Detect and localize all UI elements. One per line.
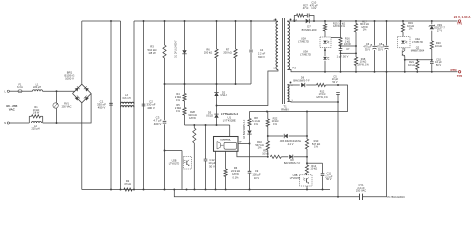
label T1 pin numbers	[273, 20, 298, 102]
wire bias top pin	[288, 84, 300, 86]
resistor R7	[234, 49, 237, 58]
svg-text:RM8/I: RM8/I	[281, 107, 289, 111]
label R6 sense value	[231, 166, 240, 180]
zener VR1	[429, 25, 435, 29]
svg-text:220 µH: 220 µH	[33, 86, 41, 89]
svg-text:47 Ω: 47 Ω	[303, 6, 309, 10]
wire R28 to rail	[193, 143, 195, 190]
node snubber junctions	[293, 20, 315, 22]
capacitor C9	[248, 171, 252, 173]
svg-text:PI-7516-022016: PI-7516-022016	[388, 196, 406, 199]
resistor R22	[266, 119, 269, 126]
wire bias winding return	[288, 101, 339, 104]
wire R4 to R5	[184, 101, 186, 108]
label D4 value	[243, 119, 246, 139]
svg-text:MMBT3904: MMBT3904	[411, 49, 425, 53]
inductor L3 winding 2	[121, 106, 134, 108]
wire N input	[9, 122, 29, 124]
wire Q2 sense link	[405, 59, 432, 61]
wire D4 to BP	[249, 135, 251, 144]
label R10 value	[255, 140, 263, 150]
svg-text:LYT4328E: LYT4328E	[223, 119, 236, 123]
wire R11 to D8	[281, 156, 288, 158]
label VR1 value	[434, 23, 445, 33]
node divider link ends	[340, 45, 357, 54]
capacitor C7	[339, 49, 343, 51]
wire R8 column top	[249, 112, 251, 119]
resistor R27	[297, 14, 304, 17]
transformer T1 secondary winding	[288, 22, 290, 70]
wire U2A link to R16	[331, 37, 341, 39]
label Q2 value	[411, 46, 425, 53]
wire U1 pin S2	[225, 151, 227, 169]
label U3B refdes	[290, 174, 301, 180]
wire F1 to L1	[22, 90, 33, 92]
label D5 value	[206, 111, 213, 118]
svg-text:1/8 W: 1/8 W	[33, 112, 40, 115]
wire R21 to RTN	[416, 70, 418, 72]
label RTN	[451, 68, 457, 72]
wire BP to C9	[249, 144, 251, 172]
label R11 value	[262, 150, 269, 156]
label C3 value	[153, 116, 161, 126]
svg-text:LTV817D: LTV817D	[300, 53, 311, 57]
label C11 value	[325, 173, 333, 182]
bridge rectifier BR1	[73, 84, 92, 103]
svg-text:1/8 W: 1/8 W	[189, 116, 196, 120]
label input voltage	[6, 104, 17, 112]
wire RV1 bottom lead	[56, 108, 58, 123]
wire R28 top lead	[193, 125, 195, 128]
label D2 value	[220, 90, 227, 97]
label L3 value	[122, 94, 130, 100]
node sense link junctions	[404, 59, 433, 61]
fuse F1	[18, 90, 22, 93]
wire L1 to bridge	[43, 90, 75, 92]
wire bridge plus riser	[81, 21, 83, 84]
svg-text:250 VAC: 250 VAC	[62, 105, 72, 108]
wire bias bus	[250, 85, 348, 112]
svg-text:10 kΩ: 10 kΩ	[310, 167, 317, 171]
label R21 value	[408, 60, 415, 67]
svg-text:0.1%: 0.1%	[233, 175, 240, 179]
capacitor C3	[163, 121, 167, 123]
wire R7 line	[235, 21, 237, 49]
label BR1 value	[65, 70, 75, 80]
label C8 value	[376, 42, 385, 52]
resistor R20	[430, 41, 433, 49]
wire U1 drain pin	[229, 125, 231, 137]
label R7 value	[223, 48, 231, 55]
svg-text:2.2 nF: 2.2 nF	[258, 51, 266, 55]
wire R19 line	[402, 21, 404, 24]
svg-text:LTV817D: LTV817D	[169, 162, 180, 165]
wire C12 line upper	[205, 125, 207, 159]
resistor R8	[248, 119, 251, 126]
wire R1 right stub	[42, 116, 44, 123]
svg-text:220 µH: 220 µH	[31, 128, 39, 131]
wire U4A to Q2	[402, 48, 404, 50]
node U2B collector tap	[164, 150, 166, 152]
label R15 value	[333, 21, 346, 28]
diode D4	[247, 131, 251, 135]
wire C11 top link	[307, 162, 323, 164]
label R17 value	[360, 20, 369, 31]
node N-RV1 junction	[56, 122, 58, 124]
wire chain to R14	[306, 157, 308, 165]
label R28 value	[188, 110, 196, 120]
label RV1 value	[62, 103, 72, 109]
label R5 value	[175, 103, 181, 113]
svg-text:BYM26-200: BYM26-200	[302, 28, 317, 32]
transformer T1 primary winding	[276, 22, 278, 70]
svg-text:400 V: 400 V	[154, 122, 162, 126]
capacitor C4	[249, 50, 253, 52]
wire U3A to RTN	[324, 61, 326, 72]
wire drain jog line	[185, 124, 230, 126]
resistor R3	[163, 45, 166, 58]
wire C12 line lower	[205, 161, 207, 190]
wire C8 line	[386, 21, 388, 46]
resistor R17	[354, 24, 357, 33]
wire C10b to RTN	[431, 64, 433, 72]
wire D8 to R13 column	[294, 156, 307, 158]
wire D1 to R4	[184, 57, 186, 94]
resistor R14	[305, 165, 308, 174]
label D7 value	[302, 25, 317, 32]
label L1 value	[33, 83, 41, 89]
wire clamp bus full	[165, 83, 252, 85]
wire U1 BP pin	[238, 143, 250, 145]
wire C9 to rail	[249, 174, 251, 190]
label C1 value	[97, 99, 106, 109]
svg-text:C4: C4	[260, 48, 264, 52]
inductor L3 winding 1	[121, 102, 134, 104]
node bottom rail junctions	[110, 189, 323, 191]
wire bottom rail	[82, 189, 330, 191]
wire R20 to C10b	[431, 49, 433, 61]
label TP1	[457, 22, 463, 26]
wire snubber right	[312, 16, 315, 22]
svg-text:1000 V: 1000 V	[65, 76, 74, 80]
label D1 value	[175, 40, 178, 58]
resistor R10	[266, 141, 269, 150]
opto U2B transistor	[184, 157, 192, 170]
label C10 output value	[435, 57, 442, 67]
capacitor C10 snubber	[304, 14, 312, 18]
svg-text:10 V: 10 V	[254, 176, 260, 180]
svg-text:50 V: 50 V	[332, 81, 337, 84]
wire R16 to C7	[340, 46, 342, 49]
inductor L3 line A	[120, 21, 122, 190]
inductor L1	[33, 90, 43, 91]
transistor Q2	[402, 48, 405, 56]
capacitor C6	[371, 44, 377, 49]
transformer T1 core	[282, 18, 284, 104]
svg-text:200 kΩ: 200 kΩ	[223, 51, 231, 55]
wire C11 to rail	[322, 176, 324, 189]
wire R3C3 line top	[164, 21, 166, 45]
label R6 clamp value	[204, 48, 212, 55]
resistor R1	[29, 115, 42, 118]
wire C6 line	[374, 21, 376, 46]
label TP2	[457, 74, 463, 78]
svg-text:BAV19WS-7-F: BAV19WS-7-F	[293, 80, 310, 83]
svg-text:47 kΩ: 47 kΩ	[124, 182, 131, 186]
wire VR1 line	[431, 21, 433, 24]
wire D1 line top	[184, 21, 186, 47]
capacitor C2	[142, 104, 146, 106]
terminal TP1	[458, 20, 460, 22]
resistor R5	[183, 108, 186, 115]
node sub-line C5 junction	[337, 196, 339, 198]
node bias bus junctions	[266, 111, 308, 113]
svg-text:CONTROL: CONTROL	[220, 140, 231, 142]
svg-text:35 V: 35 V	[365, 48, 371, 52]
capacitor C10 output	[430, 62, 434, 64]
svg-text:US1D: US1D	[206, 113, 213, 117]
wire R21 top	[416, 60, 418, 61]
capacitor C5	[336, 93, 340, 95]
terminal TP2	[458, 71, 460, 73]
diode D7	[294, 19, 314, 23]
capacitor C8	[383, 44, 389, 49]
label R18 value	[357, 58, 369, 67]
svg-text:LTV817D: LTV817D	[290, 177, 301, 180]
label D8 value	[284, 159, 301, 165]
opto U4A LED	[398, 37, 411, 48]
inductor L2	[32, 122, 42, 123]
wire U3B emitter	[306, 186, 308, 190]
capacitor C11	[321, 174, 325, 176]
wire R14 to U3B	[306, 174, 308, 176]
terminal L	[5, 90, 10, 93]
wire C1 line	[110, 21, 112, 190]
wire JR3 line left	[268, 135, 284, 137]
svg-text:BAV19WS-7-F: BAV19WS-7-F	[284, 162, 301, 165]
label C2 value	[147, 100, 156, 110]
terminal N	[4, 122, 9, 125]
op-amp U1 LYTSwitch-4 IC body	[214, 137, 243, 152]
svg-text:630 V: 630 V	[258, 55, 265, 59]
label R27 value	[303, 3, 309, 10]
diode D6	[301, 83, 305, 87]
wire C8 to RTN	[386, 50, 388, 72]
label D6 refdes	[301, 77, 305, 80]
wire drain bus	[217, 70, 279, 106]
wire JR3 line right	[289, 135, 307, 137]
label T1 refdes	[281, 104, 289, 111]
svg-text:1/8 W: 1/8 W	[344, 42, 351, 46]
svg-text:50 V: 50 V	[436, 63, 442, 67]
diode D5	[214, 106, 218, 126]
wire R13 column top	[306, 112, 308, 140]
label R1 value	[33, 106, 40, 114]
wire VR1 to R20	[431, 31, 433, 41]
wire R3 to C3	[164, 58, 166, 120]
node BP junction	[249, 143, 251, 145]
wire C4 line	[250, 21, 252, 49]
node chain junction	[267, 156, 308, 158]
inductor L3 line B	[133, 21, 135, 190]
svg-text:50 V: 50 V	[209, 165, 215, 169]
wire U1 FB pin	[237, 151, 268, 157]
label U2A refdes	[298, 37, 309, 44]
svg-text:1/8 W, 1%: 1/8 W, 1%	[316, 96, 328, 99]
svg-text:1 kV: 1 kV	[311, 6, 316, 10]
node R28 tap	[193, 124, 195, 126]
node C5 top tap	[337, 84, 339, 86]
node C12 tap	[205, 124, 218, 126]
wire C5 to ground	[337, 94, 339, 196]
svg-text:1%: 1%	[254, 122, 258, 126]
wire R17 line	[355, 21, 357, 24]
resistor R6 sense	[224, 169, 227, 176]
node RTN junctions	[324, 71, 433, 73]
svg-text:200 kΩ: 200 kΩ	[204, 51, 212, 55]
svg-text:1/8 W, 1%: 1/8 W, 1%	[333, 24, 346, 28]
wire ground sub-line right	[363, 72, 387, 197]
svg-text:1 µF, 50 V: 1 µF, 50 V	[337, 55, 349, 59]
label R22 value	[272, 116, 279, 126]
diode D1	[182, 47, 186, 57]
wire R15 to U2A	[324, 31, 326, 37]
wire C2 line	[143, 21, 145, 190]
label R16 value	[344, 37, 351, 47]
resistor R12	[317, 83, 326, 86]
label C6 value	[363, 42, 372, 52]
wire L input	[9, 90, 18, 92]
label C7 value	[337, 55, 349, 59]
svg-text:N: N	[4, 122, 6, 125]
wire R10 to chain	[267, 150, 269, 157]
label D6 value	[293, 80, 310, 83]
capacitor CY1	[360, 194, 363, 200]
svg-text:C9: C9	[255, 169, 259, 173]
resistor R15	[323, 24, 326, 31]
wire U2B emitter	[181, 151, 183, 190]
svg-text:TP1: TP1	[457, 22, 463, 26]
node JR3 right junction	[306, 135, 308, 137]
wire U1 pin S1	[215, 151, 217, 189]
label R3 value	[148, 45, 157, 55]
svg-text:35 V: 35 V	[378, 48, 384, 52]
wire C3 to rail	[164, 124, 166, 189]
wire D6 to R12	[306, 84, 316, 86]
resistor R2	[124, 188, 132, 191]
resistor R18	[354, 57, 357, 66]
svg-text:10 kΩ: 10 kΩ	[435, 44, 442, 48]
wire output rail	[314, 20, 458, 22]
svg-text:450 V: 450 V	[98, 106, 106, 110]
label R4 value	[175, 92, 181, 102]
node tie junctions	[164, 83, 186, 85]
wire R22 to node	[267, 127, 269, 142]
label R20 value	[435, 41, 442, 48]
svg-text:250 VAC: 250 VAC	[356, 189, 366, 193]
svg-text:27 V: 27 V	[437, 29, 443, 33]
wire C11 line	[322, 163, 324, 173]
resistor R4	[183, 94, 186, 101]
svg-text:24 V, 1.04 A: 24 V, 1.04 A	[454, 15, 472, 19]
label C4 value	[258, 48, 266, 59]
svg-text:D1 DFLU1400-7: D1 DFLU1400-7	[175, 40, 178, 58]
wire C6 to RTN	[374, 50, 376, 72]
label R2 value	[124, 179, 131, 186]
node clamp bus junctions	[216, 83, 237, 85]
label C5 value	[332, 75, 339, 84]
label R12 value	[316, 90, 328, 99]
wire R17 to R18	[355, 32, 357, 57]
node T1 polarity dots	[275, 19, 292, 84]
node D5 junction	[216, 105, 218, 107]
node output rail junctions	[324, 20, 433, 22]
svg-text:LTV817D: LTV817D	[412, 40, 423, 44]
svg-text:RTN: RTN	[451, 68, 457, 72]
wire R22 column	[267, 112, 269, 120]
wire bridge minus drop	[81, 103, 83, 190]
node bias return tap	[337, 101, 339, 103]
wire R6 to bus	[216, 58, 218, 84]
label R8 value	[252, 116, 260, 126]
diode D2	[214, 84, 218, 106]
wire R6 line	[216, 21, 218, 49]
wire Q2 emitter to RTN	[404, 56, 406, 71]
label output voltage	[454, 15, 472, 19]
wire ground sub-line	[174, 190, 359, 197]
wire divider link upper	[341, 45, 357, 47]
node top rail junctions	[110, 20, 252, 22]
wire secondary top pin	[288, 20, 297, 23]
label U1 name	[221, 112, 238, 116]
label R14 value	[310, 164, 317, 171]
svg-text:4.2 V: 4.2 V	[288, 143, 294, 146]
wire R16 line	[340, 21, 342, 38]
opto U3A LED	[323, 57, 329, 60]
svg-text:400 V: 400 V	[147, 106, 155, 110]
wire C7 to RTN	[340, 50, 342, 71]
wire R15 line	[324, 21, 326, 24]
label C10 value	[310, 1, 318, 11]
node U2A-U3A junction	[324, 49, 326, 51]
wire RV1 top lead	[56, 91, 58, 103]
svg-text:TP2: TP2	[457, 74, 463, 78]
label R19 value	[407, 21, 414, 31]
diode D8	[289, 155, 293, 159]
resistor R19	[401, 24, 404, 33]
wire R18 to RTN	[355, 66, 357, 72]
label U4A refdes	[412, 37, 423, 44]
wire R8 to D4	[249, 126, 251, 130]
capacitor C1	[109, 103, 113, 105]
wire secondary bottom pin	[288, 70, 458, 72]
svg-text:LTV817D: LTV817D	[298, 40, 309, 44]
wire snubber left	[294, 16, 296, 22]
zener JR3	[284, 134, 288, 138]
svg-text:10 kΩ: 10 kΩ	[408, 63, 415, 67]
varistor RV1	[53, 103, 58, 108]
node L-RV1 junction	[56, 90, 58, 92]
label F1 value	[17, 83, 23, 89]
wire R5 to jog	[184, 115, 186, 125]
label PI document number	[388, 196, 406, 199]
svg-text:C7: C7	[346, 47, 350, 51]
svg-text:US1J: US1J	[220, 93, 227, 97]
svg-text:50 V: 50 V	[326, 178, 331, 181]
opto U3B transistor	[300, 175, 313, 186]
node FB node	[267, 135, 269, 137]
label CY1 value	[356, 183, 366, 193]
